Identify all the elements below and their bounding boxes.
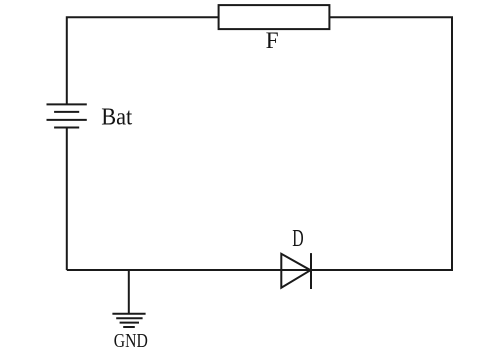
svg-text:GND: GND [114,330,148,352]
battery Bat plate long [47,119,87,121]
svg-text:D: D [292,226,303,252]
battery Bat plate short bottom [54,127,79,129]
ground bar 1 [112,313,145,315]
battery Bat plate long top [47,103,87,105]
svg-text:F: F [266,28,279,54]
ground bar 3 [120,322,139,324]
svg-text:Bat: Bat [101,105,132,131]
wire top-left and left upper segment [67,17,219,104]
wire left lower segment [66,128,68,271]
diode D cathode bar [310,253,312,289]
fuse F1 body [219,5,330,29]
ground bar 4 [123,326,135,328]
wire top-right, right side and bottom [67,17,452,270]
ground bar 2 [116,317,142,319]
ground stem wire [128,270,130,314]
battery Bat plate short [54,111,79,113]
diode D triangle [281,254,310,288]
